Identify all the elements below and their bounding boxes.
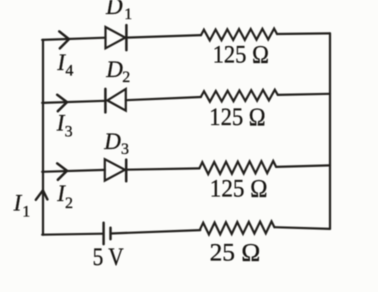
svg-text:125 Ω: 125 Ω [210, 176, 268, 203]
svg-text:1: 1 [124, 6, 132, 23]
label I3 [56, 110, 73, 140]
current arrow I1 on left bus (pointing up) [36, 190, 48, 200]
wire: branch 4 right segment (R4 to right bus) [274, 227, 330, 229]
svg-text:1: 1 [22, 203, 30, 220]
label I4 [56, 50, 73, 79]
svg-text:5 V: 5 V [93, 244, 124, 271]
svg-text:D: D [105, 0, 123, 19]
diode D1 triangle (anode left, pointing right) [106, 27, 126, 48]
wire: branch 1 right segment (R1 to right bus) [277, 32, 330, 35]
svg-text:125 Ω: 125 Ω [209, 104, 265, 131]
battery BT1 negative plate (short) [109, 228, 111, 240]
wire: branch 3 middle segment (D3 to R3) [126, 168, 199, 169]
svg-text:2: 2 [122, 69, 130, 86]
wire: branch 2 right segment (R2 to right bus) [278, 94, 330, 95]
svg-text:I: I [13, 190, 23, 215]
svg-text:3: 3 [121, 141, 129, 158]
wire: branch 2 left segment (left bus to D2 cathode) [42, 101, 105, 103]
wire: branch 1 middle segment (D1 to R1) [126, 35, 201, 38]
resistor R3 (125 ohm) zigzag [199, 161, 276, 174]
wire: branch 4 middle segment (battery to R4) [111, 230, 201, 233]
wire: branch 3 left segment (left bus to D3 anode) [42, 170, 105, 172]
resistor R4 (25 ohm) zigzag [200, 221, 274, 234]
svg-text:D: D [105, 57, 123, 82]
wire: branch 1 left segment (node A to D1 anode) [42, 38, 105, 40]
battery BT1 positive plate (long) [102, 223, 104, 245]
wire: branch 2 middle segment (D2 to R2) [126, 97, 201, 100]
diode D3 triangle (anode left, pointing right) [105, 159, 125, 180]
current arrow I4 on branch 1 [59, 31, 69, 48]
wire: right vertical bus [329, 33, 331, 229]
svg-text:125 Ω: 125 Ω [213, 41, 269, 68]
wire: branch 3 right segment (R3 to right bus) [276, 165, 330, 167]
label I1 [13, 190, 31, 220]
resistor R1 (125 ohm) zigzag [201, 29, 277, 41]
current arrow I3 on branch 2 [57, 95, 67, 111]
svg-text:4: 4 [65, 62, 73, 79]
svg-text:2: 2 [65, 195, 73, 212]
svg-text:3: 3 [65, 124, 73, 141]
label D3 [103, 129, 129, 158]
current arrow I2 on branch 3 [57, 163, 67, 179]
diode D3 cathode bar [125, 160, 128, 182]
diode D1 cathode bar [125, 25, 128, 50]
svg-text:D: D [103, 129, 121, 154]
diode D2 triangle (pointing left) [107, 89, 126, 111]
label D1 [105, 0, 132, 23]
label D2 [105, 57, 130, 86]
wire: branch 4 left segment (left bus to battery) [42, 234, 103, 235]
svg-text:25 Ω: 25 Ω [210, 239, 261, 266]
resistor R2 (125 ohm) zigzag [201, 90, 278, 102]
diode D2 cathode bar [104, 89, 107, 113]
label I2 [56, 181, 73, 212]
wire: left vertical bus [42, 40, 44, 235]
